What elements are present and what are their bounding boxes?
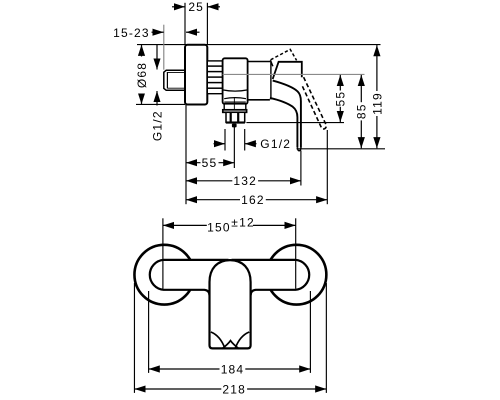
- svg-text:184: 184: [221, 362, 245, 376]
- handle cap (solid): [273, 62, 302, 79]
- ring stack between escutcheon and body: [207, 61, 222, 94]
- handle hub fold line: [270, 60, 273, 66]
- dimension 55 (horizontal): [186, 162, 234, 164]
- wire: bottom reference line of side view: [297, 148, 386, 150]
- escutcheon circle right: [267, 245, 327, 305]
- outlet tip nub: [232, 124, 237, 128]
- lever raised position (dashed): [302, 77, 327, 129]
- svg-text:G1/2: G1/2: [150, 110, 164, 141]
- wire: extension line x=326.9 below dashed lever: [326, 130, 328, 204]
- lever (solid, hanging down): [273, 81, 301, 148]
- svg-text:55: 55: [202, 156, 218, 170]
- svg-text:±12: ±12: [231, 216, 255, 230]
- wire: extension line x=300.9 below lever: [300, 151, 302, 186]
- dimension 132: [186, 180, 301, 182]
- handle raised position (dashed cap peak): [271, 49, 297, 60]
- wire: extension line at dashed lever tip level: [246, 122, 344, 124]
- wire: outlet centerline: [233, 97, 235, 111]
- dimension 55 (vertical right): [339, 75, 341, 91]
- wire: 184 extension lines: [148, 291, 150, 373]
- outlet nut G1/2: [226, 112, 245, 122]
- dimension 218: [134, 388, 326, 390]
- dimension Ø68: [141, 45, 143, 104]
- outlet flange: [223, 110, 247, 113]
- svg-text:55: 55: [334, 91, 348, 107]
- outlet transition block: [224, 104, 246, 110]
- dimension 184: [149, 368, 311, 370]
- svg-text:G1/2: G1/2: [260, 137, 291, 151]
- wire: extension line x=207.4 above escutcheon: [206, 3, 208, 45]
- svg-text:25: 25: [188, 0, 204, 14]
- escutcheon (side view): [185, 45, 207, 105]
- dimension 150±12: [163, 224, 296, 226]
- svg-text:Ø68: Ø68: [135, 62, 149, 88]
- body bar outline: [150, 260, 229, 296]
- wire: gray center extension line through body: [223, 73, 365, 75]
- wire: extension line left of escutcheon top: [137, 44, 381, 46]
- union nut S-connector: [164, 70, 185, 90]
- wire: outlet G1/2 extension lines: [224, 129, 226, 151]
- wire: extension line x=186 below escutcheon: [185, 105, 187, 205]
- dimension G1/2 (outlet): [214, 143, 226, 145]
- main body (cartridge housing): [223, 58, 248, 104]
- neck section right of body: [248, 61, 271, 63]
- svg-text:15-23: 15-23: [113, 26, 150, 40]
- handle grip details: [211, 332, 225, 348]
- dimension 25: [172, 6, 185, 8]
- svg-text:132: 132: [233, 174, 257, 188]
- wire: 218 extension lines: [133, 283, 135, 393]
- dimension 119 (vertical right): [376, 45, 378, 91]
- dimension G1/2 (union thread): [156, 45, 158, 70]
- body bar fill: [150, 260, 309, 290]
- escutcheon circle left: [134, 245, 194, 305]
- dimension 162: [186, 199, 327, 201]
- wire: extension line x=185 above escutcheon: [184, 3, 186, 45]
- svg-text:162: 162: [241, 193, 265, 207]
- handle (front view): [210, 260, 251, 348]
- svg-text:119: 119: [370, 92, 384, 115]
- svg-text:85: 85: [355, 103, 369, 119]
- svg-text:218: 218: [222, 382, 246, 396]
- svg-text:150: 150: [207, 220, 231, 234]
- wire: 150 dim extension lines (over circles): [162, 218, 164, 288]
- wire: extension line left of escutcheon bottom: [136, 103, 185, 105]
- dimension 85 (vertical right): [360, 75, 362, 102]
- wire: gray extension line at union face: [163, 25, 165, 70]
